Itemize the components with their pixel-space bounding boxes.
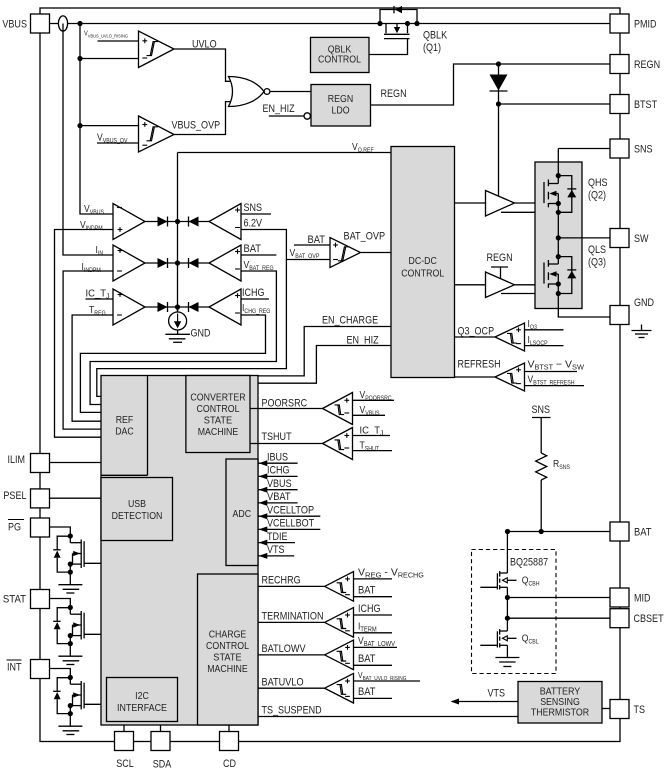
pin INT (31, 660, 50, 679)
svg-text:BATLOWV: BATLOWV (262, 643, 307, 655)
wire CD to core (228, 725, 230, 732)
svg-text:BTST: BTST (634, 99, 657, 111)
wire BATUVLO plus input (354, 680, 421, 682)
wire RECHRG minus input (354, 596, 393, 598)
wire UVLO output to NOR gate (174, 49, 233, 81)
pin ILIM (31, 454, 50, 473)
block CONVERTER CONTROL STATE MACHINE (186, 376, 250, 453)
svg-text:RECHRG: RECHRG (262, 575, 301, 587)
wire V_BAT_REG reference from REF DAC (90, 271, 276, 405)
svg-text:BATTERY: BATTERY (540, 687, 581, 698)
wire MID to pin (507, 597, 609, 599)
svg-text:POORSRC: POORSRC (262, 398, 308, 410)
wire SNS stub (241, 213, 271, 215)
diode row 1 right (189, 217, 199, 227)
wire pin to open-drain (50, 669, 71, 678)
pin SW (610, 229, 629, 248)
wire BAT stub EA5 (241, 254, 276, 256)
pin CBSET (610, 609, 629, 628)
block BQ25887 cell balance (dashed) (472, 550, 557, 674)
ground GND pin symbol (641, 325, 643, 331)
pin VBUS (31, 14, 50, 33)
wire ADC input VBUS (258, 489, 298, 491)
svg-text:CONTROL: CONTROL (318, 55, 361, 66)
wire EA row 3 summing (145, 306, 209, 308)
svg-text:REF: REF (116, 415, 134, 426)
transistor open-drain NMOS (69, 608, 71, 615)
svg-text:PSEL: PSEL (3, 490, 26, 502)
svg-text:VBUS: VBUS (2, 19, 27, 31)
inverter bubble on REGN LDO enable (304, 113, 310, 119)
resistor RSNS (536, 453, 547, 480)
wire I_Q3 stub (525, 329, 564, 331)
svg-text:MACHINE: MACHINE (207, 664, 248, 675)
wire ADC input VBAT (258, 502, 298, 504)
svg-text:MID: MID (634, 593, 651, 605)
svg-text:ICHG: ICHG (358, 603, 381, 615)
block power stage QHS QLS (535, 162, 582, 309)
svg-text:SNS: SNS (244, 202, 263, 214)
diode row 2 left (158, 258, 168, 268)
wire BTST to pin (499, 103, 611, 105)
wire REFRESH minus stub (525, 385, 585, 387)
svg-text:STAT: STAT (3, 594, 26, 606)
wire VBUS_OVP output to NOR gate (174, 102, 233, 135)
svg-text:Q3_OCP: Q3_OCP (458, 326, 495, 338)
wire ADC input VCELLTOP (258, 515, 320, 517)
svg-text:GND: GND (191, 328, 211, 340)
pin SNS (610, 139, 629, 158)
wire POORSRC output (250, 408, 323, 410)
svg-text:SDA: SDA (153, 759, 172, 770)
wire EN_HIZ stub to REGN LDO (269, 115, 304, 117)
node junction B to UVLO (77, 56, 82, 61)
node summing junction row 3 (175, 304, 180, 309)
pin GND (610, 306, 629, 325)
wire TERMINATION minus input (354, 632, 393, 634)
svg-text:CONTROL: CONTROL (197, 404, 240, 415)
transistor QBLK Q1 body diode loop (380, 10, 417, 24)
wire BAT stub BAT_OVP (294, 244, 330, 246)
node QLS source junction (556, 291, 561, 296)
transistor QBLK Q1 (385, 24, 387, 34)
svg-text:EN_HIZ: EN_HIZ (347, 335, 379, 347)
svg-text:BAT: BAT (308, 234, 326, 246)
svg-text:BAT: BAT (358, 653, 376, 665)
wire gate to core (84, 703, 101, 705)
svg-text:SENSING: SENSING (540, 697, 580, 708)
node BAT cell-balance junction (505, 529, 510, 534)
wire ADC input ICHG (258, 475, 298, 477)
wire TSHUT output (250, 443, 323, 445)
wire V_INDPM reference from REF DAC (55, 230, 114, 438)
op-amp left EA2 (113, 245, 145, 281)
svg-text:REGN: REGN (634, 59, 660, 71)
svg-text:ILIM: ILIM (8, 454, 26, 466)
node QLS drain junction (556, 254, 561, 259)
comparator UVLO (139, 31, 175, 68)
wire SNS to RSNS (540, 418, 542, 454)
wire SNS pin to QHS drain (558, 148, 610, 150)
current source I_EA (177, 307, 179, 312)
wire VTS output arrow (452, 701, 518, 703)
NOR gate U1 (229, 77, 265, 107)
block I2C INTERFACE (107, 678, 178, 722)
block DC-DC CONTROL (391, 147, 455, 378)
wire ADC input VTS (258, 555, 294, 557)
wire V_VBUS_OV stub (97, 142, 139, 144)
wire low-side driver output (515, 284, 544, 286)
svg-text:VBUS_OVP: VBUS_OVP (172, 120, 221, 132)
svg-text:VCELLTOP: VCELLTOP (267, 504, 314, 516)
svg-text:EN_HIZ: EN_HIZ (263, 103, 295, 115)
block CHARGE CONTROL STATE MACHINE (198, 574, 259, 725)
wire V_BAT_OVP stub (287, 259, 330, 261)
svg-text:SNS: SNS (532, 404, 551, 416)
node open-drain diode return (68, 570, 73, 575)
svg-text:SW: SW (634, 233, 649, 245)
wire EN_HIZ (258, 346, 391, 384)
node BTST junction (496, 101, 501, 106)
wire REGN LDO output to REGN pin (371, 64, 611, 105)
node SW junction (556, 235, 561, 240)
wire SDA to core (160, 725, 162, 732)
svg-text:QBLK: QBLK (423, 30, 448, 42)
svg-text:CBSET: CBSET (634, 613, 664, 625)
block QBLK CONTROL (311, 37, 370, 72)
wire pin to open-drain (50, 599, 71, 608)
svg-text:(Q2): (Q2) (588, 190, 606, 202)
wire T_REG reference from REF DAC (72, 315, 113, 421)
wire EN_CHARGE (258, 327, 391, 376)
comparator REFRESH (495, 363, 525, 391)
wire Q_CBH source to MID (506, 587, 508, 597)
wire thermistor to TS pin (602, 708, 610, 710)
op-amp right EA5 (209, 245, 241, 281)
svg-text:BATUVLO: BATUVLO (262, 676, 304, 688)
ground open-drain (69, 644, 71, 657)
comparator BAT_OVP (330, 238, 361, 268)
pin PG (31, 518, 50, 537)
comparator VBUS_OVP (139, 116, 175, 152)
wire error amp summing bus vertical (177, 153, 179, 316)
wire RECHRG output (258, 585, 325, 587)
node Q1 body-diode return (414, 21, 419, 26)
svg-text:BAT: BAT (358, 686, 376, 698)
wire EA row 1 summing (145, 221, 209, 223)
op-amp right EA4 (209, 204, 241, 240)
svg-text:QLS: QLS (588, 244, 606, 256)
svg-text:CHARGE: CHARGE (209, 630, 247, 641)
buffer low-side driver (486, 272, 515, 298)
node QHS drain junction (556, 173, 561, 178)
pin PSEL (31, 489, 50, 508)
node Q1 drain (377, 21, 382, 26)
pin STAT (31, 590, 50, 609)
svg-text:BAT_OVP: BAT_OVP (344, 231, 386, 243)
wire I_INDPM reference from REF DAC (63, 271, 113, 429)
buffer high-side driver (486, 191, 515, 217)
comparator RECHRG (325, 572, 354, 602)
wire QLS source to GND pin (558, 294, 610, 318)
comparator Q3_OCP (495, 323, 525, 351)
wire SCL to core (123, 725, 125, 732)
wire I_CHG_REG reference from REF DAC (80, 315, 265, 412)
node open-drain source (68, 703, 73, 708)
diode row 3 left (158, 302, 168, 312)
pin CD (220, 732, 239, 751)
svg-text:SNS: SNS (634, 144, 653, 156)
wire MID to CBSET node (506, 598, 508, 619)
wire bootstrap supply to high-side driver (498, 104, 500, 196)
svg-text:6.2V: 6.2V (244, 218, 263, 230)
svg-text:GND: GND (634, 297, 654, 309)
block REF DAC (147, 376, 149, 476)
svg-text:REGN: REGN (381, 88, 407, 100)
wire SW to pin (558, 237, 610, 239)
wire V_VBUS_UVLO_RISING stub (98, 40, 139, 42)
wire T_SHUT stub (353, 450, 393, 452)
comparator TSHUT (323, 428, 353, 460)
wire DC-DC to low-side driver (455, 284, 486, 286)
node summing junction row 1 (175, 219, 180, 224)
diode QHS body diode (558, 176, 572, 213)
ground open-drain (69, 572, 71, 585)
diode row 3 right (189, 302, 199, 312)
svg-text:REFRESH: REFRESH (458, 359, 501, 371)
pin REGN (610, 55, 629, 74)
pin TS (610, 700, 629, 719)
node open-drain source (68, 562, 73, 567)
comparator BATUVLO (325, 673, 354, 703)
block digital core (101, 376, 258, 726)
svg-text:DETECTION: DETECTION (112, 511, 163, 522)
wire ADC input VCELLBOT (258, 528, 320, 530)
node open-drain source (68, 633, 73, 638)
diode QLS body diode (558, 257, 572, 294)
wire IC_T_J stub TSHUT (353, 435, 391, 437)
op-amp left EA3 (113, 289, 145, 325)
diode row 1 left (158, 217, 168, 227)
svg-text:(Q3): (Q3) (588, 257, 606, 269)
wire ADC input IBUS (258, 462, 298, 464)
svg-text:STATE: STATE (204, 416, 233, 427)
svg-text:VTS: VTS (488, 688, 506, 700)
block REGN LDO (311, 85, 371, 127)
diode open-drain clamp (53, 620, 60, 622)
svg-text:CONVERTER: CONVERTER (190, 393, 245, 404)
svg-text:MACHINE: MACHINE (198, 427, 239, 438)
wire BATLOWV output (258, 654, 325, 656)
svg-text:CONTROL: CONTROL (206, 641, 249, 652)
wire ILIM to core (50, 462, 102, 464)
svg-text:CONTROL: CONTROL (401, 269, 444, 280)
wire DC-DC to high-side driver (455, 202, 486, 204)
diode open-drain clamp (53, 549, 60, 551)
comparator TERMINATION (325, 608, 354, 638)
wire QHS source to SW (557, 212, 559, 238)
wire TS_SUSPEND to battery sensing thermistor (258, 716, 519, 718)
svg-text:VBAT: VBAT (267, 491, 291, 503)
svg-text:INT: INT (7, 662, 22, 674)
svg-text:TERMINATION: TERMINATION (262, 611, 324, 623)
svg-text:BQ25887: BQ25887 (510, 557, 548, 569)
REGN supply tap (491, 266, 508, 268)
svg-text:I2C: I2C (135, 691, 149, 702)
current sense ellipse on VBUS input (58, 16, 67, 31)
wire EA row 2 summing (145, 262, 209, 264)
node CBSET junction (505, 616, 510, 621)
transistor Q_CBL (506, 618, 508, 631)
wire TERMINATION plus input (354, 614, 393, 616)
wire QHS drain to SNS (557, 149, 559, 184)
pin PMID (610, 14, 629, 33)
svg-text:(Q1): (Q1) (423, 42, 441, 54)
svg-text:THERMISTOR: THERMISTOR (531, 708, 589, 719)
svg-text:DC-DC: DC-DC (409, 256, 437, 267)
svg-text:CD: CD (223, 758, 236, 770)
wire BAT_OVP output to DC-DC (361, 252, 392, 254)
comparator POORSRC (323, 393, 353, 425)
transistor open-drain NMOS (69, 536, 71, 543)
svg-text:INTERFACE: INTERFACE (117, 703, 167, 714)
svg-text:PG: PG (8, 522, 21, 534)
ground cell balance (506, 645, 508, 657)
pin BAT (610, 522, 629, 541)
wire REFRESH output (455, 376, 496, 378)
transistor QLS Q3 (543, 263, 545, 284)
wire high-side driver output (515, 202, 544, 204)
wire to VBUS_OVP non-inverting input (80, 125, 139, 127)
wire BAT rail (508, 531, 611, 533)
node REGN branch (496, 61, 501, 66)
wire gate to core (84, 562, 101, 564)
wire VBUS sense bus (80, 24, 113, 215)
svg-text:BAT: BAT (244, 243, 262, 255)
svg-text:ADC: ADC (233, 509, 252, 520)
node open-drain drain (68, 605, 73, 610)
svg-text:VTS: VTS (267, 544, 285, 556)
block BATTERY SENSING THERMISTOR (518, 682, 602, 724)
svg-text:PMID: PMID (634, 19, 657, 31)
diode D_Q1 body diode (395, 6, 402, 13)
pin BTST (610, 95, 629, 114)
svg-text:STATE: STATE (213, 653, 242, 664)
wire NOR output to REGN LDO (270, 91, 311, 93)
wire high-side driver return (501, 211, 558, 213)
svg-text:SCL: SCL (116, 758, 134, 770)
wire QLS source stub to junction (557, 284, 559, 294)
wire RECHRG plus input (354, 578, 393, 580)
node open-drain drain (68, 675, 73, 680)
wire 6.2V reference from REF DAC (97, 230, 287, 397)
wire BATLOWV minus input (354, 664, 393, 666)
svg-text:VCELLBOT: VCELLBOT (267, 518, 314, 530)
diode bootstrap D_BTST (490, 75, 508, 91)
wire I_LSOCP stub (525, 345, 564, 347)
node open-drain diode return (68, 641, 73, 646)
svg-text:TS: TS (634, 704, 646, 716)
svg-text:EN_CHARGE: EN_CHARGE (322, 315, 378, 327)
wire pin to open-drain (50, 527, 71, 536)
svg-text:TSHUT: TSHUT (262, 431, 292, 443)
wire ICHG stub (241, 298, 269, 300)
wire QHS source stub to junction (557, 204, 559, 213)
wire VBUS rail to PMID (50, 23, 611, 25)
wire V_O,REF from error amp bus to DC-DC (178, 152, 392, 154)
svg-text:QHS: QHS (588, 177, 608, 189)
wire BATUVLO output (258, 687, 325, 689)
wire Q3_OCP output (455, 336, 496, 338)
block USB DETECTION (101, 478, 173, 541)
svg-text:ICHG: ICHG (242, 287, 265, 299)
transistor open-drain NMOS (69, 678, 71, 685)
transistor Q_CBH (506, 532, 508, 574)
wire REGN to bootstrap diode (498, 64, 500, 104)
diode row 2 right (189, 258, 199, 268)
wire Q1 gate to QBLK CONTROL (369, 39, 408, 55)
wire gate to core (84, 633, 101, 635)
svg-text:REGN: REGN (487, 252, 513, 264)
pin MID (610, 588, 629, 607)
svg-text:IBUS: IBUS (267, 451, 288, 463)
wire PSEL to core (50, 497, 102, 499)
wire ADC input TDIE (258, 542, 295, 544)
ground GND of current source (177, 330, 179, 334)
wire V_POORSRC stub (353, 399, 395, 401)
wire TERMINATION output (258, 621, 325, 623)
op-amp left EA1 (113, 204, 145, 240)
node MID junction (505, 595, 510, 600)
svg-text:BAT: BAT (358, 585, 376, 597)
wire BATUVLO minus input (354, 697, 393, 699)
diode open-drain clamp (53, 690, 60, 692)
svg-text:REGN: REGN (328, 94, 353, 105)
wire input current sense to I_IN amp (63, 24, 113, 256)
node summing junction row 2 (175, 260, 180, 265)
wire CBSET to pin (507, 617, 609, 619)
svg-text:VBUS: VBUS (267, 478, 292, 490)
wire QLS drain to SW (557, 238, 559, 264)
svg-text:LDO: LDO (331, 106, 349, 117)
wire IC_T_J stub (86, 298, 114, 300)
svg-text:BAT: BAT (634, 527, 652, 539)
node Q1 source (405, 21, 410, 26)
pin SCL (115, 732, 134, 751)
wire V_VBUS stub POORSRC (353, 414, 386, 416)
svg-text:ICHG: ICHG (267, 465, 290, 477)
node open-drain drain (68, 533, 73, 538)
node VBUS sense junction A (77, 21, 82, 26)
wire BATLOWV plus input (354, 646, 398, 648)
block ADC (226, 459, 258, 566)
node QHS source junction (556, 210, 561, 215)
node junction C to VBUS_OVP (77, 123, 82, 128)
svg-text:TDIE: TDIE (267, 531, 288, 543)
node open-drain diode return (68, 711, 73, 716)
pin SDA (151, 732, 170, 751)
svg-text:TS_SUSPEND: TS_SUSPEND (262, 705, 322, 717)
ground open-drain (69, 714, 71, 727)
wire REFRESH plus stub (525, 371, 578, 373)
comparator BATLOWV (325, 640, 354, 670)
op-amp right EA6 (209, 289, 241, 325)
wire low-side driver return (501, 293, 558, 295)
wire RSNS to BAT rail (540, 480, 542, 532)
transistor QHS Q2 (543, 182, 545, 203)
svg-text:DAC: DAC (115, 427, 134, 438)
wire to UVLO inverting input (80, 58, 139, 60)
